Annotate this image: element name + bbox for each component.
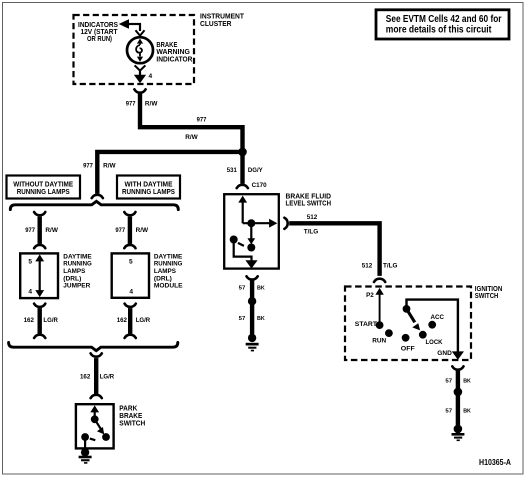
svg-text:SWITCH: SWITCH [475, 291, 499, 300]
svg-text:5: 5 [28, 258, 32, 265]
svg-text:531: 531 [227, 167, 237, 174]
svg-text:RUNNING LAMPS: RUNNING LAMPS [17, 188, 70, 196]
svg-text:R/W: R/W [185, 134, 198, 141]
svg-text:(DRL): (DRL) [154, 275, 172, 282]
svg-text:BK: BK [463, 408, 471, 414]
svg-text:BK: BK [463, 379, 471, 385]
svg-text:977: 977 [115, 227, 125, 234]
svg-text:LG/R: LG/R [43, 317, 58, 324]
svg-text:512: 512 [362, 262, 373, 269]
svg-text:OR RUN): OR RUN) [87, 35, 113, 43]
svg-text:DAYTIME: DAYTIME [63, 253, 92, 260]
svg-text:4: 4 [129, 289, 133, 296]
svg-text:OFF: OFF [401, 345, 415, 352]
svg-text:T/LG: T/LG [304, 228, 319, 235]
svg-text:JUMPER: JUMPER [63, 283, 90, 290]
svg-text:162: 162 [24, 317, 35, 324]
svg-text:DAYTIME: DAYTIME [154, 253, 183, 260]
svg-text:SWITCH: SWITCH [119, 420, 145, 428]
svg-text:BK: BK [257, 286, 265, 292]
svg-text:R/W: R/W [103, 163, 116, 170]
svg-text:LOCK: LOCK [426, 339, 443, 346]
svg-text:4: 4 [149, 73, 153, 80]
svg-text:57: 57 [239, 286, 246, 292]
svg-text:977: 977 [83, 163, 93, 170]
svg-text:BK: BK [257, 316, 265, 322]
svg-text:57: 57 [445, 379, 452, 385]
svg-text:162: 162 [80, 373, 91, 380]
svg-text:LG/R: LG/R [136, 317, 151, 324]
svg-text:LAMPS: LAMPS [154, 268, 177, 275]
svg-text:MODULE: MODULE [154, 283, 183, 290]
svg-text:977: 977 [126, 101, 136, 108]
svg-text:T/LG: T/LG [383, 262, 398, 269]
svg-text:LG/R: LG/R [100, 373, 115, 380]
svg-text:4: 4 [28, 289, 32, 296]
svg-text:C170: C170 [252, 182, 267, 189]
svg-text:512: 512 [307, 214, 318, 221]
svg-text:P2: P2 [366, 292, 374, 299]
svg-text:R/W: R/W [145, 101, 158, 108]
svg-text:INDICATOR: INDICATOR [156, 55, 192, 63]
svg-text:977: 977 [197, 117, 207, 124]
svg-text:RUNNING LAMPS: RUNNING LAMPS [122, 188, 175, 196]
svg-text:H10365-A: H10365-A [479, 458, 511, 467]
svg-text:(DRL): (DRL) [63, 275, 81, 282]
svg-text:CLUSTER: CLUSTER [200, 19, 232, 28]
svg-text:162: 162 [117, 317, 128, 324]
svg-text:START: START [355, 321, 377, 328]
svg-text:LAMPS: LAMPS [63, 268, 86, 275]
svg-text:57: 57 [445, 408, 452, 414]
svg-text:57: 57 [239, 316, 246, 322]
svg-text:LEVEL SWITCH: LEVEL SWITCH [286, 200, 332, 208]
svg-text:RUNNING: RUNNING [63, 261, 92, 268]
svg-text:R/W: R/W [136, 227, 149, 234]
svg-text:RUNNING: RUNNING [154, 261, 183, 268]
svg-text:977: 977 [25, 227, 35, 234]
svg-text:R/W: R/W [45, 227, 58, 234]
svg-text:GND: GND [437, 350, 452, 357]
svg-text:ACC: ACC [431, 314, 445, 321]
svg-text:5: 5 [129, 258, 133, 265]
svg-text:DG/Y: DG/Y [248, 167, 263, 174]
svg-text:RUN: RUN [372, 337, 386, 344]
svg-text:more details of this circuit: more details of this circuit [386, 24, 492, 35]
